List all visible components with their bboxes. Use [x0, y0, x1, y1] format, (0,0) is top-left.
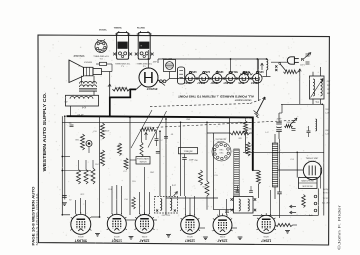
radio-phono box [299, 178, 318, 189]
resistor under box [302, 195, 306, 208]
caps feeding T-3 [236, 190, 240, 192]
osc trimmers [292, 120, 296, 122]
terminals [314, 195, 317, 198]
filament feeds from line [230, 59, 232, 72]
dial cord diagonal 2 [148, 111, 167, 148]
svg-text:.2MF: .2MF [186, 119, 191, 121]
svg-text:P-1: P-1 [100, 57, 103, 59]
svg-text:12SA7: 12SA7 [202, 70, 210, 74]
cap C-17 [307, 130, 311, 132]
tube socket top view P-1 [95, 41, 107, 53]
long vertical A [61, 116, 63, 215]
transformer T-4 box [310, 76, 325, 99]
electrolytics C-14 [276, 121, 282, 123]
cap on vertical B [62, 195, 67, 197]
svg-text:560: 560 [238, 136, 241, 138]
jack [86, 141, 92, 147]
heavy B-minus bus [67, 116, 253, 170]
svg-text:PHONO-RADIO: PHONO-RADIO [137, 158, 150, 161]
grounds [95, 233, 100, 235]
svg-text:K-4: K-4 [81, 105, 85, 108]
cap C-13 [277, 191, 282, 193]
bottom right horizontal [253, 214, 318, 216]
tube 50L6GT [71, 214, 91, 234]
svg-text:GT/G: GT/G [114, 235, 120, 237]
svg-text:GT/G: GT/G [187, 235, 193, 237]
horizontal y170 [62, 170, 91, 172]
right long vertical [323, 104, 325, 215]
resistor right of tube F [276, 223, 293, 226]
magnet [93, 69, 102, 75]
pilot lamp can [178, 67, 185, 84]
svg-text:TOP VIEW SHELL: TOP VIEW SHELL [115, 62, 130, 64]
shielded lead band [234, 149, 239, 196]
resistor R-f2 [124, 158, 128, 170]
IF transformer can T-2 [138, 33, 150, 60]
svg-text:DET: DET [327, 93, 330, 95]
svg-text:35Z5GT: 35Z5GT [146, 87, 157, 91]
svg-text:MODEL: MODEL [99, 29, 108, 31]
svg-text:OUT: OUT [327, 81, 331, 83]
resistor 2meg [245, 117, 247, 121]
svg-text:C-18: C-18 [325, 113, 329, 115]
T-4 bottom leads [312, 99, 314, 104]
svg-text:WESTERN AUTO SUPPLY CO.: WESTERN AUTO SUPPLY CO. [42, 93, 47, 172]
svg-text:T-2: T-2 [143, 65, 146, 67]
loop antenna symbol [257, 97, 266, 114]
osc coil L-3 [316, 119, 317, 131]
svg-text:12SA7: 12SA7 [197, 81, 205, 85]
filament tube 12SQ7 [212, 74, 222, 84]
svg-text:T-1: T-1 [121, 65, 124, 67]
svg-text:PHONO: PHONO [323, 189, 330, 191]
svg-text:ALL POINTS MARKED ⊥ RETURN TO: ALL POINTS MARKED ⊥ RETURN TO THIS POINT [178, 95, 254, 99]
svg-text:SOCKET: SOCKET [308, 161, 316, 163]
switch [279, 63, 281, 65]
svg-text:RC-RED: RC-RED [137, 28, 145, 30]
trimmers above T-4 [306, 53, 310, 55]
scan noise speckles [42, 38, 329, 243]
svg-text:A.C. LINE: A.C. LINE [322, 202, 330, 205]
cap C-7 [155, 138, 159, 140]
filament tube 35Z5 [239, 74, 249, 84]
horizontal y198 [166, 197, 218, 199]
antenna coil box [164, 60, 176, 72]
plug feed wire [271, 61, 288, 63]
svg-text:12SQ7: 12SQ7 [215, 70, 224, 74]
svg-text:20MF: 20MF [277, 119, 283, 121]
svg-text:35Z5: 35Z5 [238, 81, 244, 85]
wirewound striped resistor [272, 143, 278, 187]
cap on vertical C [70, 124, 74, 126]
field coil K-4 box [66, 95, 99, 106]
vertical center-4 [213, 133, 215, 210]
svg-text:50L6GT: 50L6GT [223, 81, 233, 85]
wire below T-3 [214, 209, 235, 211]
tube 12SA7 [135, 215, 154, 234]
horizontal y133 [207, 132, 231, 134]
speaker cone [69, 60, 84, 83]
output transformer T-5 [80, 81, 97, 83]
arrows [290, 206, 297, 208]
heavy branch [110, 89, 136, 116]
dial cord diagonal [131, 110, 152, 148]
IF transformer box T-3 [234, 197, 254, 214]
junction dots [61, 156, 63, 158]
svg-text:470K: 470K [104, 129, 109, 131]
tone box [179, 148, 198, 154]
filament tube 12SK7 [252, 74, 262, 84]
svg-text:TONE SW: TONE SW [184, 151, 193, 153]
resistor 2meg-b [246, 142, 250, 156]
svg-text:SWITCH: SWITCH [140, 162, 147, 164]
resistor R-b [101, 123, 105, 139]
resistor R-e2 [91, 168, 95, 184]
filament tube 50L6GT [226, 74, 236, 84]
border frame [38, 35, 329, 245]
vertical to osc box [159, 131, 161, 196]
humbucking resistor [241, 72, 253, 75]
resistor by caps [285, 124, 293, 127]
svg-text:C-17: C-17 [325, 134, 329, 136]
svg-text:R-13 33: R-13 33 [116, 86, 124, 88]
dial lamp [160, 80, 163, 83]
tube 12SA7 [213, 216, 232, 235]
plug neutral to bus [301, 64, 303, 104]
cap Y-2 [100, 62, 107, 65]
horizontal y152 [243, 151, 324, 153]
horizontal y156 [62, 156, 70, 158]
filament tube 12SA7 [199, 74, 209, 84]
wire to tube G [278, 169, 304, 171]
svg-text:50L6GT 35Z5GT: 50L6GT 35Z5GT [234, 99, 251, 101]
socket bottom view [212, 142, 231, 161]
svg-text:©John F. Rider: ©John F. Rider [338, 203, 342, 250]
cap above tube E [225, 210, 229, 212]
svg-text:GT/G: GT/G [142, 235, 148, 237]
ground B [62, 202, 67, 204]
resistor R-d [77, 170, 81, 185]
plate lead with arrow [109, 84, 111, 96]
svg-text:28 V0: 28 V0 [77, 113, 84, 115]
vertical F [129, 117, 131, 215]
svg-text:12SQ7: 12SQ7 [112, 238, 122, 242]
vertical center-2 [180, 122, 182, 196]
svg-text:150: 150 [80, 193, 83, 195]
svg-text:1000: 1000 [287, 122, 291, 124]
svg-text:.05: .05 [69, 198, 72, 200]
svg-text:PUT: PUT [327, 85, 330, 87]
svg-text:SPEAKER: SPEAKER [73, 54, 84, 57]
long vertical B [64, 116, 66, 199]
resistor R-a [81, 134, 85, 150]
svg-text:12SK7: 12SK7 [185, 238, 195, 242]
svg-text:TRIMMER BL: TRIMMER BL [114, 28, 122, 30]
resistor 560 [231, 131, 250, 135]
resistor below bus [253, 169, 259, 171]
horizontal sub-bus y122 [62, 121, 253, 123]
resistor R-g [199, 170, 203, 185]
svg-text:12SQ7: 12SQ7 [210, 81, 219, 85]
vertical E [104, 116, 106, 150]
arrow stub [261, 63, 263, 70]
voice coil [84, 67, 94, 76]
resistor stub leads [78, 160, 80, 170]
vertical center-3 [206, 122, 208, 181]
filament tube 12SK7 [186, 74, 196, 84]
phono-radio switch box [136, 157, 150, 165]
tube 12SQ7 [107, 214, 126, 233]
svg-text:MOTOR SW.: MOTOR SW. [303, 186, 314, 188]
svg-text:MODELS D5705, D5714A: MODELS D5705, D5714A [35, 193, 39, 245]
cap on center-1 [164, 136, 168, 138]
resistor R-e [84, 170, 88, 185]
line filter choke [267, 59, 268, 70]
AC plug [287, 57, 294, 64]
svg-text:MOTOR: MOTOR [323, 193, 330, 195]
svg-text:S0RVLE: S0RVLE [83, 61, 92, 63]
vertical center-5 [228, 117, 230, 142]
svg-text:OSC: OSC [150, 172, 155, 174]
long vertical x279 [279, 139, 281, 192]
choke caps [275, 65, 277, 67]
svg-text:TO 115V: TO 115V [323, 198, 330, 200]
svg-text:50L6GT: 50L6GT [228, 70, 238, 74]
svg-text:TWIN-LP UNIT: TWIN-LP UNIT [306, 158, 320, 160]
svg-text:ALIGN-OSC: ALIGN-OSC [215, 137, 226, 140]
svg-text:12SK7: 12SK7 [188, 70, 196, 74]
bottom interconnects [62, 214, 70, 216]
IF transformer can T-1 [117, 33, 129, 60]
rectifier tube 35Z5GT [139, 68, 158, 87]
svg-text:GT/G: GT/G [263, 235, 269, 237]
cap .05MF [182, 157, 187, 159]
osc box feeds [169, 186, 171, 197]
svg-text:OSC COIL: OSC COIL [162, 215, 171, 217]
resistor R-f [118, 143, 122, 156]
AC top line [158, 58, 267, 60]
chassis dashed line [150, 104, 250, 107]
gang dashed link [152, 121, 290, 128]
svg-text:1ST: 1ST [327, 89, 330, 91]
cap C-x [156, 151, 160, 153]
resistor R-h [205, 181, 209, 196]
vertical center-1 [165, 119, 167, 215]
oscillator coil box L-4 [155, 197, 178, 214]
resistor above tube C [132, 197, 136, 209]
tube G twin unit [303, 161, 321, 179]
resistor R-13 [113, 87, 130, 91]
svg-text:GT/G: GT/G [220, 235, 226, 237]
tube lead wires [75, 200, 77, 213]
tube G right lead [319, 168, 321, 189]
svg-text:12SA7: 12SA7 [139, 238, 149, 242]
wire to bus [70, 106, 72, 116]
pot body zigzag [141, 131, 143, 142]
svg-text:TOP VIEW SHELL: TOP VIEW SHELL [137, 62, 152, 64]
line cord resistor [284, 70, 298, 74]
filament row wire [170, 78, 259, 80]
svg-text:500000: 500000 [144, 125, 152, 127]
svg-text:TOP VIEW SHELL: TOP VIEW SHELL [93, 54, 109, 56]
resistor R-c [101, 150, 105, 166]
svg-text:2 MEG: 2 MEG [247, 127, 253, 129]
wires speaker right [102, 71, 113, 73]
svg-text:250: 250 [202, 185, 205, 187]
svg-text:12SK7: 12SK7 [183, 81, 191, 85]
svg-text:12SA7: 12SA7 [217, 238, 227, 242]
tube 12SK7 [181, 216, 200, 235]
vertical D [99, 116, 101, 217]
bus line right [281, 103, 322, 105]
tube 12SK7 [257, 215, 275, 233]
